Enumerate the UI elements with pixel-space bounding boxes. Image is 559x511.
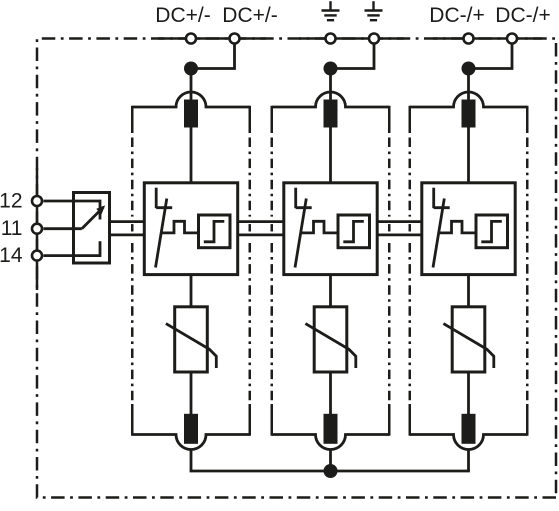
- junction node branch 3 top: [462, 62, 476, 76]
- protection module 3 box left edge dash-dot: [409, 106, 412, 436]
- thermal disconnector fuse element branch 1 top: [184, 100, 198, 128]
- trigger step symbol U1: [204, 221, 225, 241]
- wire varistor to bottom disconnector branch 2: [329, 372, 332, 414]
- trigger unit box U2: [338, 215, 370, 248]
- terminal circle DC+/- terminal b: [230, 34, 240, 44]
- wire branch 2 right terminal drop: [331, 43, 375, 69]
- wire branch 3 to ground bus: [467, 450, 470, 472]
- edge gap for wires module 2 at x=271.75: [270, 217, 274, 240]
- varistor RV1 diagonal: [166, 324, 216, 368]
- svg-text:DC-/+: DC-/+: [429, 4, 484, 27]
- junction node branch 1 top: [184, 62, 198, 76]
- wire disconnector to switch unit branch 3: [467, 128, 470, 184]
- thermal disconnector fuse element branch 1 bottom: [184, 414, 198, 444]
- switch contact fixed lead U3: [432, 188, 435, 209]
- wire varistor to bottom disconnector branch 3: [467, 372, 470, 414]
- trigger waveform link U1: [161, 221, 198, 233]
- wire pair segment 2 upper: [238, 220, 284, 223]
- protection module 2 box bottom edge with bushing arc: [272, 435, 390, 450]
- wire varistor to bottom disconnector branch 1: [190, 372, 193, 414]
- svg-text:11: 11: [1, 217, 23, 240]
- terminal circle 11: [32, 224, 42, 234]
- switch contact fixed lead U2: [294, 188, 297, 209]
- trigger step symbol U2: [343, 221, 364, 241]
- varistor RV3 diagonal: [443, 324, 493, 368]
- edge gap for wires module 1 at x=132.25: [130, 217, 134, 240]
- wire branch 1 junction to disconnector: [190, 69, 193, 101]
- switch contact tick U3: [434, 206, 450, 209]
- terminal circle 14: [32, 251, 42, 261]
- edge gap for wires module 1 at x=249.75: [248, 217, 252, 240]
- wire branch 3 junction to disconnector: [467, 69, 470, 101]
- thermal disconnector fuse element branch 2 top: [324, 100, 338, 128]
- protection module 2 box right edge dash-dot: [388, 106, 391, 436]
- junction node branch 2 top: [324, 62, 338, 76]
- thermal disconnector fuse element branch 3 top: [462, 100, 476, 128]
- thermal disconnector fuse element branch 3 bottom: [462, 414, 476, 444]
- protection module 3 box bottom edge with bushing arc: [410, 435, 528, 450]
- edge gap for wires module 3 at x=409.75: [408, 217, 412, 240]
- switch contact fixed lead U1: [155, 188, 158, 209]
- terminal circle earth terminal a: [326, 34, 336, 44]
- terminal circle DC-/+ terminal b: [507, 34, 517, 44]
- protection module 2 box left edge dash-dot: [271, 106, 274, 436]
- changeover contact blade arrowhead: [97, 206, 104, 213]
- wire branch 1 right terminal drop: [191, 43, 235, 69]
- top supply rail solid segment branch 3: [433, 37, 542, 40]
- wire switch unit to varistor branch 2: [329, 275, 332, 307]
- svg-text:12: 12: [0, 190, 23, 213]
- changeover contact blade: [82, 207, 104, 229]
- top supply rail solid segment branch 1: [158, 37, 266, 40]
- protection module 1 box left edge dash-dot: [131, 106, 134, 436]
- varistor RV1 body: [175, 307, 208, 372]
- wire switch unit to varistor branch 3: [467, 275, 470, 307]
- switch blade U1: [156, 199, 167, 268]
- wire pair segment 1 upper: [110, 220, 145, 223]
- switching device U2 box: [284, 183, 377, 275]
- terminal circle DC+/- terminal a: [186, 34, 196, 44]
- earth ground symbol 2: [365, 1, 383, 20]
- svg-text:DC+/-: DC+/-: [155, 4, 210, 27]
- wire disconnector to switch unit branch 1: [190, 128, 193, 184]
- protection module 1 box bottom edge with bushing arc: [132, 435, 250, 450]
- wire terminal 11 lead: [44, 227, 82, 230]
- varistor RV2 diagonal: [305, 324, 355, 368]
- terminal circle earth terminal b: [369, 34, 379, 44]
- wire terminal 14 lead: [44, 241, 101, 255]
- trigger unit box U3: [476, 215, 508, 248]
- ground bus wire: [191, 470, 469, 471]
- trigger waveform link U3: [438, 221, 475, 233]
- wire branch 3 right terminal drop: [469, 43, 513, 69]
- svg-text:DC-/+: DC-/+: [495, 4, 550, 27]
- wire pair segment 2 lower: [238, 233, 284, 236]
- switching device U1 box: [144, 183, 237, 275]
- switching device U3 box: [422, 183, 515, 275]
- top supply rail solid segment branch 2: [299, 37, 404, 40]
- wire branch 2 to ground bus: [329, 450, 332, 472]
- protection module 2 box top edge with bushing arc: [272, 92, 390, 107]
- earth ground symbol 1: [322, 1, 340, 20]
- trigger unit box U1: [199, 215, 231, 248]
- left border solid segment at signal terminals: [36, 168, 39, 290]
- trigger waveform link U2: [300, 221, 337, 233]
- protection module 1 box top edge with bushing arc: [132, 92, 250, 107]
- switch contact tick U1: [156, 206, 172, 209]
- switch contact tick U2: [296, 206, 312, 209]
- wire pair segment 3 lower: [377, 233, 422, 236]
- switch blade U3: [433, 199, 444, 268]
- wire disconnector to switch unit branch 2: [329, 128, 332, 184]
- terminal circle DC-/+ terminal a: [464, 34, 474, 44]
- protection module 3 box right edge dash-dot: [526, 106, 529, 436]
- terminal circle 12: [32, 196, 42, 206]
- thermal disconnector fuse element branch 2 bottom: [324, 414, 338, 444]
- trigger step symbol U3: [481, 221, 502, 241]
- wire branch 2 junction to disconnector: [329, 69, 332, 101]
- wire pair segment 1 lower: [110, 233, 145, 236]
- svg-text:DC+/-: DC+/-: [222, 4, 277, 27]
- wire branch 1 to ground bus: [190, 450, 193, 472]
- switch blade U2: [295, 199, 306, 268]
- varistor RV3 body: [452, 307, 485, 372]
- wire switch unit to varistor branch 1: [190, 275, 193, 307]
- protection module 3 box top edge with bushing arc: [410, 92, 528, 107]
- junction node ground bus: [324, 464, 338, 478]
- wire pair segment 3 upper: [377, 220, 422, 223]
- svg-text:14: 14: [0, 244, 23, 267]
- varistor RV2 body: [314, 307, 347, 372]
- edge gap for wires module 2 at x=389.25: [387, 217, 391, 240]
- wire terminal 12 lead: [44, 201, 101, 220]
- remote signalling changeover contact box: [74, 193, 110, 264]
- protection module 1 box right edge dash-dot: [249, 106, 252, 436]
